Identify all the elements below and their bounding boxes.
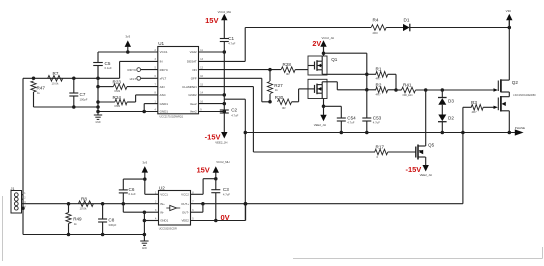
wire OFF row to R30 [199,77,262,79]
svg-text:CLAMPEN: CLAMPEN [182,85,197,89]
svg-text:4.7uF: 4.7uF [373,121,380,125]
wire OUT- tie [191,211,203,213]
wire GND2 to mid rail [199,94,225,96]
transistor Q2 upper device [501,79,509,81]
svg-text:R23: R23 [113,80,122,85]
svg-text:VCC2_MH: VCC2_MH [216,160,229,164]
svg-text:RDYC: RDYC [160,68,169,72]
transistor Q1 lower FET [308,79,327,98]
svg-text:VEE2: VEE2 [181,219,189,223]
svg-text:VEE2_JH: VEE2_JH [215,140,227,144]
ground GND filter [97,107,99,112]
wire Vdd2 to VCC2 rail [199,51,225,53]
svg-text:R24: R24 [113,95,122,100]
wire IN- row to U2 [144,211,158,213]
wire VCC1 feed to U2 [144,179,146,194]
svg-text:-15V: -15V [405,165,421,174]
resistor R17 [375,149,388,155]
capacitor C6 [123,178,145,180]
wire IN from node to U1 pin [119,61,121,78]
svg-text:IN-: IN- [160,210,164,214]
diode D2 [438,115,446,122]
ground GND at U2 [143,238,145,242]
svg-text:GND1: GND1 [160,219,168,223]
wire Vee2 pins to rail [199,103,225,105]
wire input net from J1 pin1 up the left side [22,78,24,194]
svg-text:R17: R17 [376,145,385,150]
svg-text:R3: R3 [471,100,477,105]
node junction R47 top [32,77,36,81]
svg-text:UCC21710QDWRQ1: UCC21710QDWRQ1 [160,116,184,119]
svg-text:4.7uF: 4.7uF [228,42,235,46]
svg-text:GND1: GND1 [160,102,169,106]
node PHASE output arrow [515,129,524,135]
svg-text:DNM: DNM [115,105,121,108]
capacitor C8 [102,204,104,219]
wire Q1 upper source out to bus [321,70,323,75]
svg-text:Q1: Q1 [331,57,338,62]
svg-text:4.7uF: 4.7uF [231,113,238,117]
svg-text:C2: C2 [231,108,237,113]
wire OUT+ 0V line [191,203,463,205]
svg-text:D1: D1 [404,18,410,23]
wire GND rail under filter [34,106,99,108]
diode D3 [441,90,443,98]
capacitor C5 [97,52,99,63]
svg-text:3v3: 3v3 [125,35,130,39]
wire node IN filter row [23,77,120,79]
svg-text:Q2: Q2 [512,80,519,85]
wire Q5 drain up to gate node [424,145,426,147]
svg-text:ASC: ASC [160,93,167,97]
svg-text:330pF: 330pF [108,223,116,227]
wire J1 signal row to R8 [23,203,159,205]
svg-text:R2: R2 [376,82,382,87]
wire J1 pin bus vertical [22,195,24,235]
svg-text:RDYC: RDYC [128,68,138,72]
svg-text:R7: R7 [53,71,59,76]
diode D1 [403,24,410,31]
node junction bus at C5 [96,77,100,81]
svg-text:3v3: 3v3 [142,160,147,164]
wire GND1 row to U2 [144,220,158,222]
svg-text:2R0: 2R0 [373,31,379,35]
svg-text:0R: 0R [282,106,286,110]
wire 0V riser to PHASE rail and R3 [462,107,464,203]
wire DESAT loop to R4 [199,60,246,62]
buffer symbol inside U2 [170,205,177,210]
wire Q5 source to VEE2 [424,156,426,158]
svg-text:0.1uF: 0.1uF [105,66,112,70]
svg-text:OFF: OFF [191,77,197,81]
wire 2V branch to bus top [322,51,326,55]
svg-text:VCC1: VCC1 [160,193,168,197]
svg-text:C53: C53 [373,115,382,120]
svg-text:Vee2: Vee2 [190,110,197,114]
resistor R27 [269,70,271,81]
wire U1 GND1 row [98,111,158,113]
svg-text:Vee2: Vee2 [190,102,197,106]
resistor R24 [98,101,115,103]
svg-text:R41: R41 [403,82,412,87]
svg-text:VCC2: VCC2 [181,193,189,197]
wire CLAMP row to R17 [199,86,254,88]
svg-text:15V: 15V [196,166,209,175]
svg-text:15V: 15V [205,16,218,25]
svg-text:C6: C6 [129,187,135,192]
svg-text:UCC5320SCDR: UCC5320SCDR [159,227,177,230]
svg-text:OUT+: OUT+ [181,202,189,206]
svg-text:Q5: Q5 [428,143,435,148]
svg-text:VCC1: VCC1 [160,50,168,54]
svg-text:ON: ON [192,68,197,72]
capacitor C3 [215,179,217,190]
wire GND1 pins of U1 [144,103,158,105]
svg-text:R27: R27 [274,83,283,88]
resistor R30 [278,99,292,105]
svg-text:U1: U1 [158,41,164,46]
svg-text:C54: C54 [347,115,356,120]
svg-text:4.7uF: 4.7uF [223,193,230,197]
svg-text:R47: R47 [37,86,46,91]
resistor R47 [31,81,36,92]
svg-text:PHASE: PHASE [515,126,525,130]
transistor Q1 upper FET [308,56,327,75]
resistor R1 [367,73,376,75]
resistor R49 [68,204,70,213]
capacitor C7 [73,78,75,93]
resistor R8 [78,201,93,207]
svg-text:GND1: GND1 [160,110,169,114]
capacitor C53 [362,117,371,119]
power -15V VEE2_JH at Q5 [423,165,429,172]
svg-text:LSIC1MO120E0080: LSIC1MO120E0080 [513,94,536,97]
wire V30 rail down to Q2 [508,21,510,81]
svg-text:U2: U2 [159,186,165,191]
svg-text:xFLT: xFLT [129,77,136,81]
svg-text:4R7: 4R7 [376,77,382,81]
wire VCC1 row to U1 [98,51,158,53]
svg-text:R1: R1 [376,67,382,72]
svg-text:GND: GND [142,248,147,250]
resistor R3 [463,106,472,108]
wire VCC2 to 15V [191,193,204,195]
power -15V VEE2_JH [221,132,227,139]
svg-text:C8: C8 [108,218,114,223]
svg-text:R4: R4 [373,18,379,23]
svg-text:10.0k: 10.0k [80,207,87,211]
svg-text:IN: IN [160,60,163,64]
wire R1 R2 bus vertical [366,53,368,118]
svg-text:DESAT: DESAT [187,60,197,64]
svg-text:R30: R30 [275,95,284,100]
svg-text:C3: C3 [223,187,229,192]
svg-text:R8: R8 [81,196,87,201]
wire Q1 lower drain out to bus [321,82,323,85]
wire COM branch down to 0V net [224,98,245,100]
svg-text:DNM: DNM [115,90,121,93]
svg-text:AIN: AIN [160,85,165,89]
wire rail between C1 and C2 [223,42,225,111]
op-amp U1 gate driver UCC21710 [158,47,199,114]
svg-text:VCC2_MH: VCC2_MH [218,10,231,14]
svg-text:V30: V30 [506,9,512,13]
op-amp U2 gate driver UCC5320 [159,191,191,226]
node junction C7 top [72,77,76,81]
capacitor C1 [220,38,229,40]
svg-text:0.1uF: 0.1uF [129,192,136,196]
svg-text:VEE2_JH: VEE2_JH [420,173,432,177]
svg-text:GND2: GND2 [188,93,197,97]
transistor Q5 [415,147,417,158]
capacitor C54 [340,106,342,118]
svg-text:GND: GND [95,122,100,124]
resistor R2 [367,89,376,91]
svg-text:0R: 0R [286,72,290,76]
svg-text:D2: D2 [448,115,454,120]
svg-text:0R0_E24: 0R0_E24 [403,94,414,97]
capacitor C2 [220,109,229,111]
svg-text:VEE2_JH: VEE2_JH [314,123,326,127]
wire between D3 and D2 [441,105,443,115]
wire Q1 source node to VEE2 arrow and C54 [321,93,323,98]
svg-text:4.7uF: 4.7uF [347,121,354,125]
resistor R7 [48,76,63,82]
svg-text:VCC2_JH: VCC2_JH [322,36,334,40]
svg-text:Vdd2: Vdd2 [190,50,197,54]
wire bus C5 to GND rail [97,66,99,112]
svg-text:OUT-: OUT- [182,210,189,214]
svg-text:10.0k: 10.0k [52,81,59,85]
svg-text:100pF: 100pF [80,97,88,101]
resistor R4 [371,25,386,31]
svg-text:2V: 2V [312,39,321,48]
wire U2 ground drop [143,212,145,237]
svg-text:R28: R28 [283,62,292,67]
svg-text:xFLT: xFLT [160,77,167,81]
power 3v3 at U1 [126,50,130,54]
resistor R28 [281,67,295,73]
sheet border faint lines [2,196,4,261]
resistor R41 [396,89,402,91]
resistor R23 [98,86,113,88]
wire ON output row to R28 [199,69,282,71]
svg-text:IN+: IN+ [160,202,165,206]
svg-text:R49: R49 [73,217,82,222]
wire VEE2 row tie to 0V [191,220,246,222]
transistor Q2 lower device [501,96,509,98]
svg-text:C1: C1 [228,36,234,41]
svg-text:D3: D3 [448,98,454,103]
wire PHASE source rail [245,132,515,134]
svg-text:4R7: 4R7 [376,92,382,96]
wire bottom ground rail [23,234,144,236]
wire C6 ground jog [123,211,144,213]
svg-text:4R7: 4R7 [472,110,478,114]
power VEE2_JH under Q1 [320,115,326,122]
wire gate node row to Q2 gate [416,89,494,91]
